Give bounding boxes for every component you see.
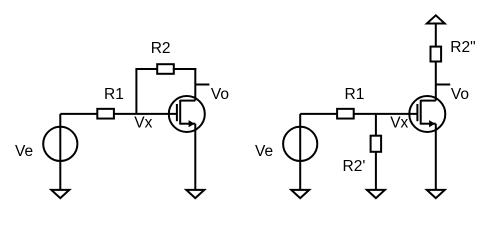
wire: source column to ground (right) (435, 124, 437, 190)
resistor R1 (right) (337, 109, 354, 119)
transistor M1 (NMOS) (169, 96, 205, 132)
wire: Vx branch up to R2 row (135, 69, 137, 114)
ground (under R2') (367, 190, 385, 198)
ground (under Ve) (51, 190, 69, 198)
svg-text:Vx: Vx (390, 115, 408, 132)
wire: Vo tap (195, 84, 209, 86)
svg-text:Ve: Ve (15, 143, 33, 160)
svg-text:R1: R1 (345, 86, 365, 103)
resistor R2" (431, 47, 442, 62)
ground (under M1) (186, 190, 204, 198)
wire: Ve source column (59, 114, 61, 190)
resistor R2' (371, 136, 382, 152)
svg-text:Vx: Vx (134, 115, 152, 132)
wire: Ve to R1 (60, 113, 97, 115)
svg-text:R2": R2" (450, 39, 475, 56)
wire: R1 to gate (114, 113, 177, 115)
svg-text:R2: R2 (151, 40, 171, 57)
voltage source Ve (right) (283, 127, 317, 161)
svg-text:Vo: Vo (211, 86, 229, 103)
supply arrow (VDD) (427, 15, 445, 23)
wire: supply to R2" (435, 24, 437, 47)
wire: drain column down to transistor (194, 68, 196, 101)
resistor R2 (157, 64, 174, 74)
voltage source Ve (43, 127, 77, 161)
wire: Ve source column (right) (299, 114, 301, 190)
svg-text:R1: R1 (104, 86, 124, 103)
svg-text:Vo: Vo (451, 86, 469, 103)
svg-text:Ve: Ve (255, 143, 273, 160)
svg-text:R2': R2' (343, 158, 366, 175)
transistor M2 (NMOS) (409, 96, 445, 132)
wire: Vo tap (right) (436, 84, 450, 86)
ground (under right Ve) (291, 190, 309, 198)
wire: R2 row left (135, 68, 157, 70)
wire: source column to ground (194, 124, 196, 190)
wire: R1 to gate (right) (354, 113, 418, 115)
wire: R2' to ground (375, 152, 377, 190)
wire: Ve to R1 (right) (300, 113, 337, 115)
ground (under M2) (427, 190, 445, 198)
wire: Vx branch down to R2' (375, 114, 377, 136)
resistor R1 (97, 109, 114, 119)
wire: R2" down to drain (435, 62, 437, 101)
wire: R2 row right (173, 68, 197, 70)
